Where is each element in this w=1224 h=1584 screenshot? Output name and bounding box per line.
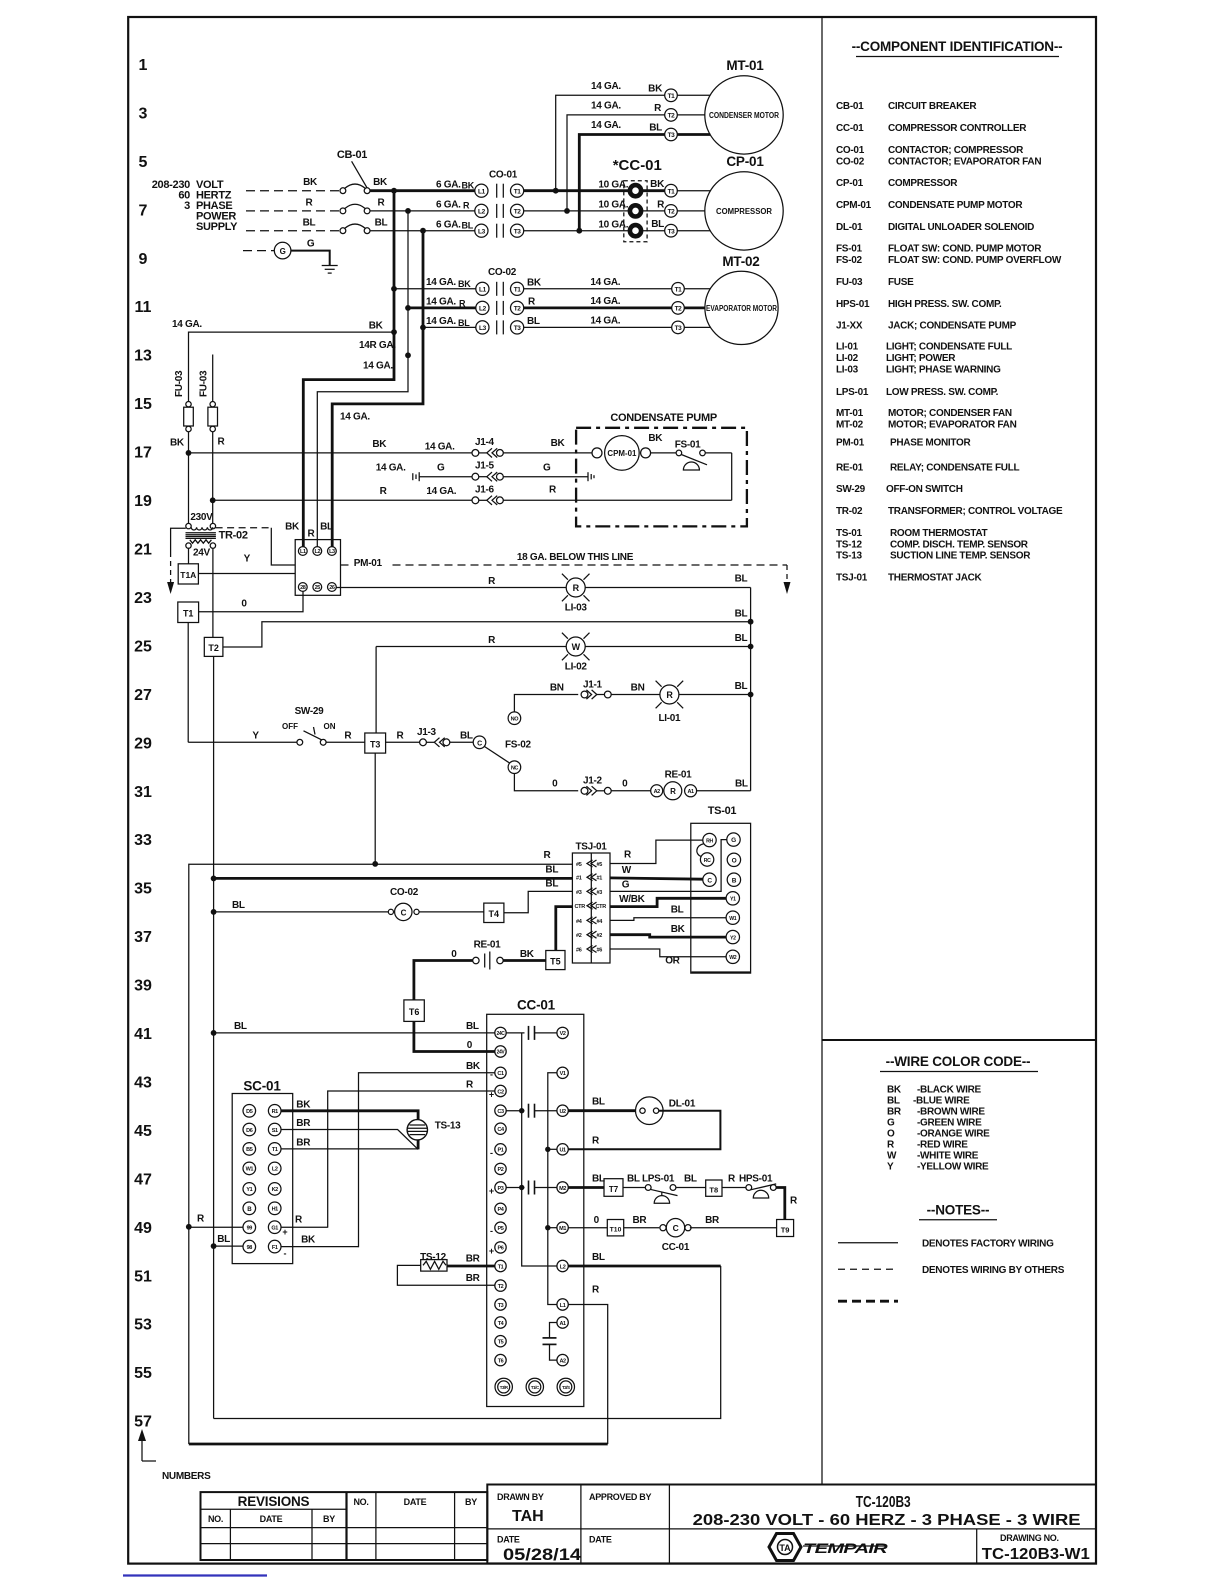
svg-text:BK: BK	[520, 949, 535, 960]
svg-text:BN: BN	[550, 683, 564, 694]
svg-text:EVAPORATOR MOTOR: EVAPORATOR MOTOR	[706, 304, 777, 313]
svg-text:T7: T7	[609, 1185, 619, 1194]
svg-text:SW-29: SW-29	[295, 706, 325, 717]
svg-text:MT-02: MT-02	[722, 254, 759, 269]
svg-text:DL-01: DL-01	[669, 1098, 696, 1109]
svg-text:G: G	[731, 837, 736, 844]
node bus LI-02	[748, 644, 754, 650]
temp sensor TS-13	[407, 1120, 461, 1140]
svg-text:T3: T3	[514, 325, 522, 332]
PUMP	[167, 412, 790, 1419]
wire BK TSJ to Y2	[610, 935, 726, 937]
svg-text:A2: A2	[654, 789, 661, 795]
terminal T10	[607, 1220, 623, 1236]
svg-text:35: 35	[134, 881, 152, 898]
wire T10 to CC-01 coil	[624, 1227, 660, 1229]
wire R J1-6 into pump	[503, 499, 731, 501]
svg-text:BL: BL	[735, 779, 748, 790]
dashed arrow down right	[786, 565, 788, 582]
svg-text:Y2: Y2	[730, 935, 736, 941]
svg-text:JACK; CONDENSATE PUMP: JACK; CONDENSATE PUMP	[888, 321, 1017, 332]
float switch FS-02	[473, 712, 531, 774]
svg-text:T5: T5	[550, 957, 561, 967]
terminal T4	[484, 903, 504, 922]
svg-text:14 GA.: 14 GA.	[425, 441, 455, 452]
wire T3 to J1-3	[386, 741, 420, 743]
svg-text:0: 0	[552, 779, 558, 790]
svg-text:T3: T3	[498, 1303, 504, 1309]
svg-text:BK: BK	[372, 439, 387, 450]
wire color code list	[887, 1085, 990, 1173]
wire R 99 row	[189, 1226, 243, 1228]
svg-text:T3: T3	[514, 228, 522, 235]
svg-text:-GREEN WIRE: -GREEN WIRE	[917, 1118, 982, 1129]
svg-text:SC-01: SC-01	[243, 1079, 281, 1094]
node BK junction	[391, 188, 397, 194]
svg-text:COMP. DISCH. TEMP. SENSOR: COMP. DISCH. TEMP. SENSOR	[890, 540, 1029, 551]
svg-text:BL: BL	[234, 1021, 247, 1032]
svg-text:T10: T10	[610, 1227, 622, 1234]
wire T5 up to TSJ CTR	[556, 907, 573, 951]
svg-text:DENOTES WIRING BY OTHERS: DENOTES WIRING BY OTHERS	[922, 1265, 1065, 1276]
wire BL J1-3 to FS-02	[450, 741, 473, 743]
ground terminal G	[274, 242, 291, 259]
svg-text:T2: T2	[675, 306, 683, 313]
svg-text:T4: T4	[489, 909, 500, 919]
svg-text:11: 11	[135, 299, 152, 316]
svg-text:MOTOR; EVAPORATOR FAN: MOTOR; EVAPORATOR FAN	[888, 420, 1017, 431]
svg-text:LI-02: LI-02	[565, 662, 588, 673]
svg-text:C1: C1	[497, 1071, 504, 1077]
svg-text:6 GA.: 6 GA.	[436, 220, 461, 231]
wire Y to SW-29	[188, 741, 297, 743]
svg-text:0: 0	[622, 779, 628, 790]
node bus LI-01	[748, 692, 754, 698]
svg-text:3: 3	[139, 105, 148, 122]
svg-text:L2: L2	[478, 209, 486, 216]
svg-text:CO-01: CO-01	[489, 170, 518, 181]
node 14GA R tap	[405, 352, 411, 358]
svg-text:#3: #3	[576, 890, 582, 896]
svg-text:27: 27	[134, 687, 152, 704]
wire W TSJ to C	[610, 878, 703, 879]
svg-text:R: R	[378, 198, 386, 209]
svg-text:-BLUE WIRE: -BLUE WIRE	[913, 1096, 970, 1107]
svg-text:T5: T5	[498, 1340, 504, 1346]
svg-text:FU-03: FU-03	[199, 370, 210, 397]
svg-text:BL: BL	[649, 123, 662, 134]
fuse FU-03 no2	[199, 370, 226, 526]
fuse FU-03 no1	[170, 370, 193, 526]
svg-text:BK: BK	[466, 1061, 481, 1072]
svg-text:C3: C3	[497, 1109, 504, 1115]
svg-text:LIGHT; POWER: LIGHT; POWER	[886, 353, 956, 364]
light LI-03	[562, 574, 590, 614]
svg-text:BL: BL	[232, 900, 245, 911]
terminal T5	[546, 951, 565, 970]
terminal T8	[706, 1180, 722, 1196]
wire BL L2 loop	[568, 1265, 720, 1268]
svg-text:D5: D5	[246, 1109, 253, 1115]
svg-text:CB-01: CB-01	[836, 101, 864, 112]
svg-text:BR: BR	[466, 1254, 481, 1265]
svg-text:SUCTION LINE TEMP. SENSOR: SUCTION LINE TEMP. SENSOR	[890, 551, 1031, 562]
svg-text:13: 13	[134, 348, 152, 365]
wire T1 down to SW-29 row	[187, 623, 189, 743]
compressor controller overloads *CC-01	[613, 157, 662, 242]
svg-text:C: C	[707, 877, 712, 884]
svg-text:0: 0	[467, 1040, 473, 1051]
svg-text:-RED WIRE: -RED WIRE	[917, 1140, 968, 1151]
svg-text:THERMOSTAT JACK: THERMOSTAT JACK	[888, 573, 983, 584]
supply dashed line G	[243, 250, 274, 252]
svg-text:B: B	[732, 877, 737, 884]
svg-text:O: O	[732, 857, 737, 864]
supply dashed line BL	[246, 230, 340, 232]
TITLEBLOCK	[201, 1485, 1097, 1565]
svg-text:P5: P5	[498, 1226, 504, 1232]
svg-text:R: R	[549, 484, 557, 495]
svg-text:MOTOR; CONDENSER FAN: MOTOR; CONDENSER FAN	[888, 408, 1012, 419]
wire 0 T1 to PM-01	[199, 592, 303, 612]
svg-text:BK: BK	[170, 437, 185, 448]
svg-text:T3: T3	[668, 228, 676, 235]
svg-text:DRAWING NO.: DRAWING NO.	[1000, 1533, 1059, 1543]
wire BL row34 thick	[214, 877, 573, 880]
terminal T2	[204, 637, 223, 656]
svg-text:T9: T9	[781, 1225, 790, 1234]
wire R PM-01 to LI-03	[336, 587, 566, 589]
contact P3 to M2	[506, 1181, 557, 1195]
svg-text:W: W	[887, 1150, 897, 1161]
jack J1-4	[472, 437, 503, 458]
svg-text:T2: T2	[498, 1284, 504, 1290]
svg-text:PHASE MONITOR: PHASE MONITOR	[890, 438, 971, 449]
ground symbol	[322, 266, 338, 274]
wire BK J1-4 to CPM-01	[503, 452, 592, 454]
svg-text:+: +	[489, 1246, 494, 1256]
svg-text:-: -	[284, 1249, 287, 1259]
contactor CO-02	[476, 267, 524, 334]
node BK to MT-01	[553, 188, 559, 194]
wire BR TS-12 to T1	[447, 1265, 495, 1268]
wire T4 to TSJ no3	[504, 891, 573, 912]
svg-text:208-230 VOLT - 60 HERZ -: 208-230 VOLT - 60 HERZ - 3 PHASE - 3 WIR…	[693, 1512, 1081, 1529]
svg-text:BL: BL	[735, 633, 748, 644]
svg-text:R: R	[666, 690, 673, 700]
node fuse2 row19	[210, 497, 216, 503]
wire BL TSJ to W1	[610, 918, 726, 921]
svg-text:CIRCUIT BREAKER: CIRCUIT BREAKER	[888, 101, 977, 112]
svg-text:BL: BL	[527, 316, 540, 327]
svg-text:BL: BL	[460, 731, 473, 742]
svg-text:-: -	[490, 1148, 493, 1158]
wire BK R1 to TS-13	[281, 1111, 418, 1150]
svg-text:TS-13: TS-13	[435, 1120, 461, 1131]
contactor coil CO-02	[388, 887, 419, 921]
svg-text:G1: G1	[271, 1226, 278, 1232]
svg-text:F1: F1	[272, 1245, 278, 1251]
svg-text:L3: L3	[479, 325, 487, 332]
svg-text:BN: BN	[631, 683, 645, 694]
wire 24V right to T2	[212, 548, 214, 637]
svg-text:+: +	[489, 1186, 494, 1196]
condensate pump motor CPM-01	[592, 436, 651, 471]
svg-text:T1: T1	[183, 609, 194, 619]
wire G J1-5 into pump	[503, 476, 588, 478]
room thermostat TS-01	[691, 805, 751, 973]
svg-text:R: R	[544, 850, 552, 861]
svg-text:T3/R: T3/R	[500, 1385, 509, 1390]
svg-text:PM-01: PM-01	[836, 438, 865, 449]
wire R row19 to J1-6	[213, 499, 472, 501]
svg-text:BL: BL	[545, 878, 558, 889]
svg-text:BL: BL	[320, 522, 333, 533]
wire NO up to LI-01 row	[514, 695, 578, 712]
wiring by others sample	[838, 1268, 898, 1270]
svg-text:15: 15	[134, 396, 152, 413]
svg-text:MT-02: MT-02	[836, 420, 864, 431]
svg-text:BL: BL	[735, 681, 748, 692]
svg-text:-ORANGE WIRE: -ORANGE WIRE	[917, 1128, 990, 1139]
svg-text:L1: L1	[479, 286, 487, 293]
svg-text:J1-3: J1-3	[417, 727, 437, 738]
svg-text:28: 28	[300, 585, 306, 591]
svg-text:TSJ-01: TSJ-01	[576, 842, 608, 853]
wire BK CO-01 to CP-01	[524, 189, 630, 192]
svg-text:--WIRE COLOR CODE--: --WIRE COLOR CODE--	[886, 1054, 1031, 1069]
svg-text:R: R	[790, 1196, 798, 1207]
svg-text:#5: #5	[576, 862, 582, 868]
svg-text:T1: T1	[675, 286, 683, 293]
svg-text:3: 3	[184, 200, 190, 212]
wire Y dashed to PM-01	[216, 527, 272, 529]
capacitor A1 A2	[543, 1323, 557, 1361]
CC-01 bottom terminals	[495, 1378, 575, 1395]
svg-text:NO.: NO.	[208, 1514, 223, 1524]
svg-text:CB-01: CB-01	[337, 149, 367, 161]
title block right	[487, 1485, 1096, 1564]
supply dashed line BK	[246, 190, 340, 192]
svg-text:C: C	[477, 740, 482, 747]
svg-text:DATE: DATE	[589, 1535, 612, 1545]
svg-text:TS-01: TS-01	[708, 805, 737, 817]
svg-text:BL: BL	[462, 221, 474, 231]
svg-text:FLOAT SW: COND. PUMP OVERF: FLOAT SW: COND. PUMP OVERFLOW	[888, 255, 1062, 266]
svg-text:6 GA.: 6 GA.	[436, 200, 461, 211]
svg-text:ON: ON	[324, 722, 336, 731]
svg-text:BK: BK	[527, 277, 542, 288]
svg-text:H1: H1	[272, 1207, 279, 1213]
svg-text:NC: NC	[511, 766, 519, 772]
svg-text:T3: T3	[370, 739, 381, 749]
svg-text:W/BK: W/BK	[619, 894, 646, 905]
svg-text:T2/S: T2/S	[562, 1385, 570, 1390]
svg-text:R: R	[466, 1079, 474, 1090]
svg-text:BR: BR	[296, 1138, 311, 1149]
svg-text:NO.: NO.	[353, 1497, 368, 1507]
node R junction	[405, 208, 411, 214]
svg-text:23: 23	[134, 590, 152, 607]
contactor CO-01	[475, 170, 524, 238]
svg-text:7: 7	[139, 202, 148, 219]
svg-text:33: 33	[134, 832, 152, 849]
svg-text:53: 53	[134, 1317, 152, 1334]
wire R fuse stub	[212, 355, 214, 402]
svg-text:BK: BK	[303, 177, 318, 188]
svg-text:L3: L3	[329, 549, 335, 555]
wire CO-02 T1 to MT-02	[524, 288, 672, 290]
pressure switch HPS-01	[739, 1174, 776, 1199]
temp-air logo	[769, 1534, 889, 1561]
svg-text:#5: #5	[597, 862, 603, 868]
wire G TSJ to G	[610, 840, 727, 892]
compressor CP-01	[665, 154, 784, 250]
svg-text:47: 47	[134, 1171, 152, 1188]
svg-text:#6: #6	[597, 948, 603, 954]
svg-text:LI-02: LI-02	[836, 353, 859, 364]
svg-text:M1: M1	[559, 1226, 566, 1232]
numbers arrow	[138, 1429, 211, 1482]
svg-text:-BROWN WIRE: -BROWN WIRE	[917, 1107, 985, 1118]
svg-text:TSJ-01: TSJ-01	[836, 573, 868, 584]
wire CO-02 T2 to MT-02	[524, 306, 672, 309]
svg-text:BK: BK	[462, 181, 475, 191]
svg-text:C: C	[673, 1223, 679, 1233]
svg-text:RELAY; CONDENSATE FULL: RELAY; CONDENSATE FULL	[890, 463, 1020, 474]
svg-text:SW-29: SW-29	[836, 484, 866, 495]
svg-text:DL-01: DL-01	[836, 222, 863, 233]
wire HPS-01 to T9	[776, 1188, 785, 1220]
svg-text:BR: BR	[632, 1215, 647, 1226]
jack J1-1	[581, 679, 611, 699]
line number labels	[134, 57, 152, 1431]
svg-text:CO-01: CO-01	[836, 145, 865, 156]
svg-text:1: 1	[139, 57, 148, 74]
bold dashed sample	[838, 1300, 898, 1303]
svg-text:LI-03: LI-03	[836, 365, 859, 376]
svg-text:BR: BR	[296, 1118, 311, 1129]
jack J1-6	[472, 484, 503, 505]
circuit breaker CB-01	[337, 149, 370, 234]
svg-text:PM-01: PM-01	[354, 558, 383, 569]
svg-text:CC-01: CC-01	[836, 123, 864, 134]
bus right BL	[750, 588, 752, 791]
svg-text:T2: T2	[514, 306, 522, 313]
svg-text:BK: BK	[648, 84, 663, 95]
svg-text:L1: L1	[478, 188, 486, 195]
svg-text:R: R	[459, 299, 466, 309]
svg-text:TS-01: TS-01	[836, 528, 862, 539]
pressure switch LPS-01	[642, 1174, 678, 1204]
svg-text:BY: BY	[465, 1497, 477, 1507]
svg-text:14R GA.: 14R GA.	[359, 340, 396, 351]
svg-text:W1: W1	[246, 1167, 254, 1173]
svg-text:T1: T1	[272, 1147, 278, 1153]
wire T7 to LPS-01	[623, 1187, 645, 1189]
svg-text:T6: T6	[409, 1007, 420, 1017]
svg-text:#6: #6	[576, 948, 582, 954]
TSJ	[572, 805, 750, 973]
svg-text:RH: RH	[706, 838, 713, 844]
svg-text:TC-120B3-W1: TC-120B3-W1	[982, 1546, 1090, 1563]
svg-text:CONTACTOR; EVAPORATOR FAN: CONTACTOR; EVAPORATOR FAN	[888, 157, 1041, 168]
svg-text:P6: P6	[498, 1246, 504, 1252]
wire BL vertical bus	[332, 231, 423, 547]
svg-text:BK: BK	[369, 321, 384, 332]
svg-text:45: 45	[134, 1123, 152, 1140]
svg-text:LIGHT; CONDENSATE FULL: LIGHT; CONDENSATE FULL	[886, 342, 1012, 353]
svg-text:M2: M2	[559, 1186, 566, 1192]
svg-text:BL: BL	[592, 1174, 605, 1185]
svg-text:#3: #3	[597, 890, 603, 896]
svg-text:FLOAT SW: COND. PUMP MOTOR: FLOAT SW: COND. PUMP MOTOR	[888, 244, 1042, 255]
svg-text:R: R	[654, 103, 662, 114]
svg-text:RC: RC	[704, 858, 711, 864]
svg-text:A1: A1	[559, 1321, 566, 1327]
wire BL LI-02 to bus	[585, 646, 750, 648]
svg-text:C2: C2	[497, 1089, 504, 1095]
motor MT-02	[672, 254, 778, 345]
svg-text:BK: BK	[650, 179, 665, 190]
svg-text:COMPRESSOR: COMPRESSOR	[888, 178, 958, 189]
svg-text:14 GA.: 14 GA.	[426, 297, 456, 308]
svg-text:LIGHT; PHASE WARNING: LIGHT; PHASE WARNING	[886, 365, 1001, 376]
wire SW-29 to T3	[326, 741, 365, 743]
svg-text:-YELLOW WIRE: -YELLOW WIRE	[917, 1161, 989, 1172]
svg-text:C: C	[401, 908, 407, 917]
wire R bus down left	[186, 1224, 192, 1230]
ground stub in pump	[588, 472, 594, 481]
svg-text:BY: BY	[323, 1514, 335, 1524]
svg-text:T8: T8	[709, 1186, 718, 1195]
svg-text:J1-4: J1-4	[475, 437, 495, 448]
svg-text:-BLACK WIRE: -BLACK WIRE	[917, 1085, 982, 1096]
svg-text:BK: BK	[373, 177, 388, 188]
svg-text:14 GA.: 14 GA.	[426, 486, 456, 497]
wire 24V left to T1A	[188, 548, 190, 564]
node BL junction	[420, 228, 426, 234]
svg-text:0: 0	[241, 599, 247, 610]
svg-text:CC-01: CC-01	[662, 1242, 690, 1253]
svg-text:G: G	[887, 1118, 895, 1129]
svg-text:BK: BK	[458, 279, 471, 289]
svg-text:T1A: T1A	[180, 570, 196, 580]
svg-text:DATE: DATE	[404, 1497, 427, 1507]
wire BK up to MT-01 T1	[556, 95, 665, 190]
svg-text:R: R	[308, 529, 316, 540]
svg-text:14 GA.: 14 GA.	[591, 81, 621, 92]
wire BL LI-03 to bus	[585, 587, 750, 589]
wire R TSJ to RH	[610, 840, 703, 863]
terminal T7	[604, 1179, 623, 1197]
svg-text:TAH: TAH	[512, 1508, 544, 1525]
svg-text:RE-01: RE-01	[836, 463, 864, 474]
motor MT-01	[665, 58, 784, 154]
svg-text:TRANSFORMER; CONTROL VOLTAGE: TRANSFORMER; CONTROL VOLTAGE	[888, 506, 1063, 517]
svg-text:CONTACTOR; COMPRESSOR: CONTACTOR; COMPRESSOR	[888, 145, 1024, 156]
node BL to MT-01	[576, 228, 582, 234]
svg-text:V1: V1	[560, 1071, 566, 1077]
wire G to J1-5	[419, 476, 472, 478]
svg-text:U1: U1	[559, 1148, 566, 1154]
svg-text:R: R	[573, 583, 580, 593]
wire R CO-01 to CP-01	[524, 210, 630, 212]
phase monitor PM-01	[285, 522, 340, 596]
svg-text:0: 0	[594, 1215, 600, 1226]
svg-text:14 GA.: 14 GA.	[363, 361, 393, 372]
svg-text:05/28/14: 05/28/14	[503, 1545, 582, 1564]
